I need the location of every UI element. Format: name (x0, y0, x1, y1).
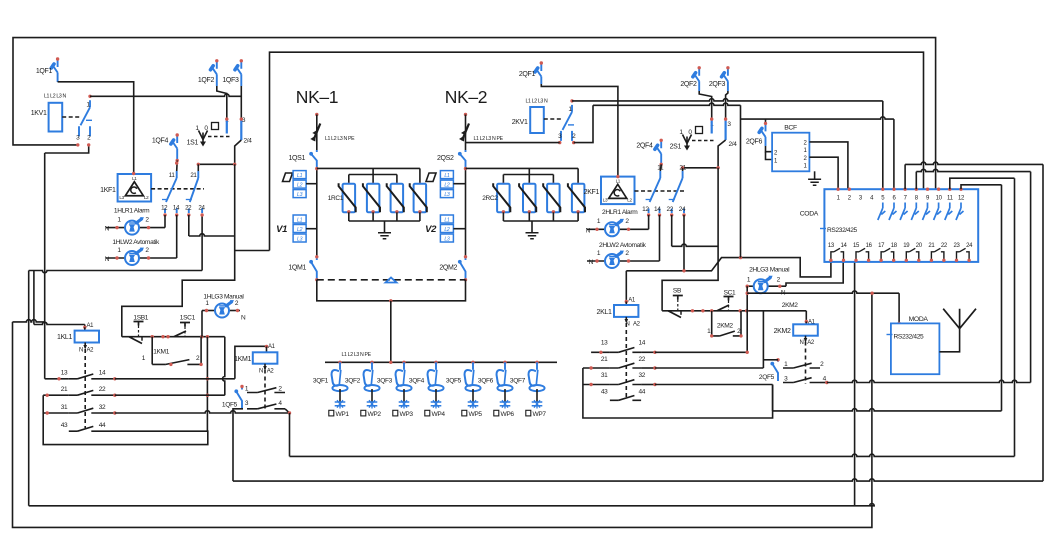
svg-text:21: 21 (190, 172, 197, 179)
dashed actuator link 1KF1 contacts (151, 188, 204, 190)
svg-text:A1: A1 (87, 323, 95, 329)
outgoing circuit WP7 (526, 389, 547, 418)
dashed actuator link 1KM1-1QF5 contacts (264, 370, 266, 411)
wire CODA pin 16 to MODA and lamp net (747, 291, 901, 325)
svg-text:WP5: WP5 (469, 411, 483, 418)
circuit breaker 2QF5 (759, 358, 780, 381)
svg-text:2RC2: 2RC2 (482, 195, 498, 202)
svg-text:SB: SB (673, 288, 682, 295)
varistor bank 2RC2 (466, 168, 586, 238)
svg-text:24: 24 (966, 243, 973, 249)
svg-text:WP4: WP4 (432, 411, 446, 418)
svg-text:44: 44 (99, 422, 106, 429)
svg-text:RS232/425: RS232/425 (827, 227, 858, 234)
svg-text:21: 21 (928, 243, 935, 249)
dashed actuator link 2KL1 contacts (625, 323, 627, 397)
contact 1-2 of 2QF5 (783, 361, 824, 368)
contact 13-14 of 2KL1 (591, 340, 657, 354)
load switch 2QM2 (439, 255, 467, 281)
wire 1KV1 pin1 bus to 1QF3 (90, 94, 241, 96)
wire row 14 NK-2 to 2HLG3 riser (655, 351, 749, 354)
circuit breaker 1QF2 (198, 59, 219, 86)
wire row 14 to A1 riser (115, 378, 235, 380)
wire 2QF3 to 2S1 terminal 3 (726, 91, 728, 119)
svg-text:1HLW2 Avtomatik: 1HLW2 Avtomatik (112, 239, 160, 246)
svg-text:L1: L1 (444, 173, 450, 179)
wire 2HLG3 pin2 to CODA pin 14 line (786, 261, 843, 287)
svg-text:13: 13 (828, 243, 835, 249)
svg-text:14: 14 (99, 370, 106, 377)
contact 31-32 of 2KL1 (583, 372, 657, 386)
CODA output contacts pins 13-24 (829, 248, 971, 262)
svg-text:A2: A2 (807, 340, 815, 346)
svg-text:A2: A2 (633, 322, 641, 328)
svg-text:N: N (800, 340, 804, 346)
svg-text:1QS1: 1QS1 (289, 155, 306, 162)
relay coil 1KL1 (57, 323, 99, 354)
svg-text:L3: L3 (297, 192, 303, 198)
svg-text:2QF2: 2QF2 (680, 81, 697, 88)
svg-text:L1 L2 L3 N PE: L1 L2 L3 N PE (342, 352, 372, 358)
phase monitor relay 2KF1 (584, 175, 635, 204)
signal lamp 2HLR1 Alarm (586, 209, 649, 236)
svg-text:43: 43 (61, 422, 68, 429)
aux changeover contact 11-12-14 of 2KF1 (642, 165, 664, 217)
svg-text:32: 32 (639, 372, 646, 379)
svg-text:2QF6: 2QF6 (746, 139, 763, 146)
svg-text:2QF5: 2QF5 (759, 374, 775, 381)
outgoing circuit WP5 (462, 389, 483, 418)
wire 2QF5 feed from manual row (763, 311, 778, 368)
changeover contact of 1KV1 (76, 95, 92, 147)
svg-text:1KM1: 1KM1 (153, 349, 170, 356)
svg-text:2KF1: 2KF1 (584, 189, 600, 196)
svg-text:WP6: WP6 (501, 411, 515, 418)
svg-text:L1 L2 L3 N PE: L1 L2 L3 N PE (325, 136, 355, 142)
svg-text:2HLR1 Alarm: 2HLR1 Alarm (602, 209, 638, 216)
wire long bottom bus 24-contact to CODA pin 15 (29, 215, 875, 506)
wire manual feed line down to 1SB1 row (122, 164, 235, 336)
relay 1KV1 (31, 94, 80, 132)
wire QM output rail to distribution bus (317, 280, 466, 363)
wire 2QF4 to contact 11 (659, 164, 662, 171)
circuit breaker 2QF2 (680, 66, 701, 91)
signal lamp 1HLW2 Avtomatik (105, 239, 177, 265)
wire 1QF5 pole input from bottom bus (233, 409, 243, 481)
svg-text:1KV1: 1KV1 (31, 110, 47, 117)
svg-text:3QF4: 3QF4 (409, 378, 425, 385)
svg-text:V1: V1 (276, 224, 287, 235)
svg-text:1QF4: 1QF4 (152, 138, 169, 145)
svg-text:1QM1: 1QM1 (288, 265, 306, 272)
relay coil 1KM1 (234, 344, 277, 375)
terminal block A1 group NK-1 (283, 171, 317, 198)
svg-text:23: 23 (954, 243, 961, 249)
RCBO breaker 3QF4 (409, 361, 444, 392)
contact 31-32 of 1KL1 (43, 404, 116, 415)
terminal block A2 group NK-2 (426, 171, 466, 198)
svg-text:1HLG3 Manual: 1HLG3 Manual (203, 294, 244, 301)
svg-text:3QF7: 3QF7 (510, 378, 526, 385)
svg-text:2KV1: 2KV1 (512, 119, 528, 126)
load switch 2QS2 (437, 150, 466, 167)
wire lamp 2HLR1 to contact 12 (648, 215, 650, 229)
surge arrester arrow NK-1 (310, 124, 355, 143)
svg-text:2KM2: 2KM2 (782, 302, 799, 309)
wire 2KV1 pin2 sense bus to BCF enclosure line (574, 103, 741, 143)
wire BCF outputs to CODA pins 1-2 (809, 142, 848, 189)
svg-text:V2: V2 (425, 224, 437, 235)
svg-text:22: 22 (99, 386, 106, 393)
svg-text:44: 44 (639, 388, 646, 395)
wire 1KL1 A1 feed branch (34, 271, 85, 328)
wire 1QF1 to 1KF1 (58, 82, 134, 174)
svg-text:WP7: WP7 (533, 411, 547, 418)
svg-text:13: 13 (601, 340, 608, 347)
svg-text:1SC1: 1SC1 (180, 315, 196, 322)
phase monitor relay 1KF1 (100, 172, 151, 202)
relay 2KV1 (512, 99, 561, 134)
module BCF (772, 125, 809, 172)
svg-text:2QS2: 2QS2 (437, 155, 454, 162)
wire 2QF1 to 2KF1 (541, 84, 618, 177)
svg-text:11: 11 (657, 165, 664, 172)
wire control row NK-1 manual circuit (122, 335, 225, 338)
selector switch 2S1 (670, 117, 738, 150)
circuit breaker 1QF3 (222, 59, 243, 86)
selector switch 1S1 (187, 117, 253, 147)
relay coil 2KL1 (597, 298, 641, 328)
svg-text:11: 11 (169, 172, 176, 179)
wire 2QF2 to 2S1 terminal 1 (699, 91, 712, 119)
svg-text:19: 19 (903, 243, 910, 249)
wire 1SB1 parallel branch (152, 337, 201, 365)
contact 13-14 of 1KL1 (45, 370, 117, 381)
wire 2QF5 output to CODA pin 8 (827, 172, 1031, 383)
wire control row NK-2 manual circuit (662, 309, 806, 312)
module CODA (800, 189, 978, 262)
RCBO breaker 3QF7 (510, 361, 545, 392)
aux contact 2KM2 self-hold (707, 322, 743, 337)
wire NK-2 spine (464, 167, 467, 257)
svg-text:14: 14 (841, 243, 848, 249)
contact 1-2 of 1QF5 (245, 386, 285, 393)
svg-text:L1 L2 L3 N: L1 L2 L3 N (526, 99, 548, 105)
wire 2KL1 coil A1 feed (626, 269, 685, 301)
dashed actuator link 2KF1 contacts (635, 190, 687, 192)
wire 1QF4 to contact 11 (175, 161, 178, 172)
RCBO breaker 3QF5 (446, 361, 481, 392)
svg-text:1HLR1 Alarm: 1HLR1 Alarm (114, 208, 150, 215)
CODA input switches pins 5-12 (836, 188, 963, 221)
svg-text:2KM2: 2KM2 (717, 322, 734, 329)
svg-text:18: 18 (891, 243, 898, 249)
signal lamp 1HLG3 Manual (202, 294, 246, 322)
RCBO breaker 3QF1 (313, 361, 348, 392)
contact 3-4 of 2QF5 (783, 375, 829, 384)
node NK-1 feed (315, 113, 318, 150)
svg-text:N: N (79, 348, 83, 354)
ground BCF (808, 171, 821, 185)
wire top border bus from 1KV1 pin3 to CODA pin 10 (13, 38, 936, 190)
relay coil 2KM2 (774, 320, 818, 347)
svg-text:2QF4: 2QF4 (636, 143, 653, 150)
svg-text:1QF2: 1QF2 (198, 77, 215, 84)
varistor bank 1RC1 (317, 168, 427, 238)
wire contact 24 NK-2 to CODA pin 13 line (684, 215, 831, 277)
svg-text:2KM2: 2KM2 (774, 328, 791, 335)
module MODA (887, 316, 940, 374)
wire 2KV1 pin1 sense bus to CODA pin 5 (572, 99, 883, 190)
svg-text:L2: L2 (297, 183, 303, 189)
svg-text:WP1: WP1 (336, 411, 350, 418)
svg-text:2QF3: 2QF3 (709, 81, 726, 88)
aux changeover contact 11-12-14 of 1KF1 (161, 171, 180, 217)
terminal block V1 group NK-1 (276, 215, 317, 242)
svg-text:21: 21 (679, 165, 686, 172)
changeover contact of 2KV1 (558, 99, 576, 144)
svg-text:SC1: SC1 (724, 290, 736, 297)
svg-text:24: 24 (198, 205, 205, 212)
wire 1SB1 row down through rows (206, 337, 209, 432)
surge arrester arrow NK-2 (459, 124, 504, 143)
RCBO breaker 3QF2 (345, 361, 380, 392)
svg-text:22: 22 (666, 206, 673, 213)
contact 43-44 of 1KL1 (61, 422, 106, 431)
svg-text:L2: L2 (444, 183, 450, 189)
wire contact 22 to manual line (189, 215, 235, 236)
wire SC parallel branch (712, 311, 741, 336)
wire 1KL1 contact left bus (43, 395, 208, 444)
svg-text:2QF1: 2QF1 (519, 71, 536, 78)
outgoing circuit WP3 (393, 389, 414, 418)
title NK-1 (296, 87, 338, 107)
outgoing circuit WP4 (425, 389, 446, 418)
wire bottom bus row to CODA pin 7 (233, 164, 1043, 481)
svg-text:15: 15 (853, 243, 860, 249)
svg-text:14: 14 (639, 340, 646, 347)
circuit breaker 1QF1 (36, 57, 59, 82)
wire NK-1 spine (315, 167, 318, 257)
svg-text:NK–1: NK–1 (296, 87, 338, 107)
RCBO breaker 3QF6 (478, 361, 513, 392)
svg-text:22: 22 (941, 243, 948, 249)
wire 1KV1 pin2 down-left bus (45, 145, 89, 379)
svg-text:1QF5: 1QF5 (222, 402, 238, 409)
svg-text:14: 14 (654, 206, 661, 213)
wire contact 22 NK-2 to manual line (672, 215, 718, 246)
title NK-2 (445, 87, 487, 107)
node NK-2 feed (464, 113, 467, 150)
svg-text:22: 22 (639, 356, 646, 363)
svg-text:N: N (105, 256, 110, 263)
wire 1SB1 row to 22-row (222, 337, 224, 396)
wire 2KM2 coil A1 feed (782, 302, 808, 323)
svg-text:3QF6: 3QF6 (478, 378, 494, 385)
svg-text:N: N (589, 259, 594, 266)
wire CODA pin 11 to right loop (950, 178, 1015, 189)
wire 1QF3 to 1S1 terminal 3 (240, 86, 242, 119)
wire 2HLG3 pin1 down through row (746, 286, 749, 352)
svg-text:13: 13 (61, 370, 68, 377)
wire row 22 NK-2 right (655, 367, 764, 369)
svg-text:32: 32 (99, 404, 106, 411)
dashed actuator link 2KM2-2QF5 contacts (805, 342, 807, 385)
wire row 32 NK-2 to CODA pin 12 (655, 185, 1002, 411)
wire bottom-left outer loop to CODA pin 16 (13, 293, 872, 527)
outgoing circuit WP1 (329, 389, 350, 418)
pushbutton 1SB1 (129, 315, 149, 344)
wire lamp 1HLR1 to contact 12 (164, 215, 166, 228)
RCBO breaker 3QF3 (377, 361, 412, 392)
svg-text:NK–2: NK–2 (445, 87, 487, 107)
svg-text:1KF1: 1KF1 (100, 187, 116, 194)
svg-text:22: 22 (185, 205, 192, 212)
contact 43-44 of 2KL1 (601, 388, 646, 400)
svg-text:N: N (241, 315, 246, 322)
signal lamp 1HLR1 Alarm (105, 208, 165, 235)
svg-text:1S1: 1S1 (187, 140, 199, 147)
mechanical interlock dashed link 1QM1-2QM2 (317, 278, 466, 283)
svg-text:1KM1: 1KM1 (234, 356, 251, 363)
svg-text:BCF: BCF (784, 125, 797, 132)
wire CODA pin 8 to right loop (916, 169, 1030, 189)
svg-text:31: 31 (601, 372, 608, 379)
antenna (939, 309, 976, 352)
wire 2KV1 pin3 to NK-2 spine (466, 142, 560, 144)
wire second top bus from NK box to CODA pin 9 (235, 52, 923, 250)
load switch 1QM1 (288, 255, 318, 281)
svg-text:24: 24 (679, 206, 686, 213)
svg-text:L1: L1 (297, 217, 303, 223)
pushbutton SB (668, 288, 683, 318)
wire BCF enclosure feed line to CODA pin 6 (741, 105, 894, 257)
svg-text:21: 21 (61, 386, 68, 393)
svg-text:1QF1: 1QF1 (36, 68, 53, 75)
wire CODA pin 12 to right loop (961, 185, 1002, 189)
svg-text:MODA: MODA (909, 316, 929, 323)
svg-text:3QF2: 3QF2 (345, 378, 361, 385)
wire 1QF2 to 1S1 terminal 1 (217, 86, 227, 119)
outgoing circuit WP2 (361, 389, 382, 418)
distribution bus L1 L2 L3 N PE (325, 352, 557, 364)
wire 1KM1 coil A1 feed (235, 345, 268, 379)
svg-text:1KL1: 1KL1 (57, 334, 72, 341)
svg-text:1QF3: 1QF3 (222, 77, 239, 84)
contact 21-22 of 1KL1 (43, 386, 116, 397)
circuit breaker 1QF5 (222, 385, 244, 409)
wire row 22 to SB-row riser (115, 394, 225, 396)
wire lamp 2HLW2 to contact 14 (659, 215, 661, 261)
svg-text:RS232/425: RS232/425 (894, 334, 925, 341)
circuit breaker 2QF1 (519, 61, 543, 84)
wire 1QF5 output to bottom bus (290, 178, 1015, 456)
svg-text:31: 31 (61, 404, 68, 411)
wire 1S1 output manual line (197, 140, 242, 171)
svg-text:3QF1: 3QF1 (313, 378, 329, 385)
svg-text:A1: A1 (628, 298, 636, 304)
switch SC1 (717, 290, 736, 312)
svg-text:21: 21 (601, 356, 608, 363)
aux contact 1KM1 self-hold (142, 349, 203, 367)
aux changeover contact 21-22-24 of 1KF1 (185, 171, 205, 217)
svg-text:L3: L3 (297, 236, 303, 242)
svg-text:12: 12 (642, 206, 649, 213)
svg-text:L1 L2 L3 N: L1 L2 L3 N (44, 94, 66, 100)
svg-text:N: N (586, 227, 591, 234)
svg-text:A2: A2 (87, 348, 95, 354)
signal lamp 2HLW2 Avtomatik (587, 242, 660, 268)
svg-text:14: 14 (173, 205, 180, 212)
svg-text:2/4: 2/4 (729, 141, 738, 148)
svg-text:16: 16 (866, 243, 873, 249)
wire 2QF6 fork to BCF inputs (766, 146, 773, 160)
wire 2S1 output manual line (681, 140, 726, 171)
svg-text:L1: L1 (132, 176, 137, 181)
svg-text:2KL1: 2KL1 (597, 309, 612, 316)
wire row 32 to 1QF5 output node (115, 411, 290, 413)
terminal block V2 group NK-2 (425, 215, 465, 242)
svg-text:L3: L3 (603, 198, 608, 203)
wire 2KL1 contact left bus (583, 368, 773, 418)
circuit breaker 1QF4 (152, 133, 179, 162)
dashed actuator link 1KL1 contacts (84, 349, 86, 428)
svg-text:2HLW2 Avtomatik: 2HLW2 Avtomatik (599, 242, 647, 249)
svg-text:L3: L3 (444, 192, 450, 198)
svg-text:N: N (259, 369, 263, 375)
svg-text:43: 43 (601, 388, 608, 395)
svg-text:10: 10 (936, 196, 943, 202)
svg-text:12: 12 (958, 196, 965, 202)
wire manual feed line NK-2 down to SB row (662, 168, 718, 311)
svg-text:1RC1: 1RC1 (328, 195, 344, 202)
outgoing circuit WP6 (494, 389, 515, 418)
svg-text:A2: A2 (267, 369, 275, 375)
svg-text:L3: L3 (444, 236, 450, 242)
wire 1HLG3 to row (201, 311, 203, 337)
svg-text:20: 20 (916, 243, 923, 249)
svg-text:L1: L1 (616, 179, 621, 184)
svg-text:L2: L2 (297, 227, 303, 233)
svg-text:A1: A1 (268, 344, 276, 350)
circuit breaker 2QF3 (709, 66, 730, 91)
svg-text:3QF5: 3QF5 (446, 378, 462, 385)
switch 1SC1 (174, 315, 196, 338)
svg-text:2S1: 2S1 (670, 144, 682, 151)
svg-text:3QF3: 3QF3 (377, 378, 393, 385)
svg-text:N: N (105, 226, 110, 233)
aux changeover contact 21-22-24 of 2KF1 (666, 165, 686, 217)
svg-text:1SB1: 1SB1 (133, 315, 148, 322)
contact 3-4 of 1QF5 (245, 400, 291, 415)
svg-text:L2: L2 (444, 227, 450, 233)
svg-text:L1 L2 L3 N PE: L1 L2 L3 N PE (474, 136, 504, 142)
circuit breaker 2QF4 (636, 139, 663, 166)
svg-text:WP2: WP2 (368, 411, 382, 418)
svg-text:17: 17 (878, 243, 885, 249)
svg-text:2/4: 2/4 (244, 138, 253, 145)
svg-text:12: 12 (161, 205, 168, 212)
svg-text:WP3: WP3 (400, 411, 414, 418)
svg-text:2QM2: 2QM2 (439, 265, 457, 272)
wire lamp 1HLW2 to contact 14 (176, 215, 178, 258)
contact 21-22 of 2KL1 (583, 356, 657, 370)
wire CODA pin 7 to right loop (905, 162, 1043, 189)
signal lamp 2HLG3 Manual (746, 267, 791, 297)
svg-text:2HLG3 Manual: 2HLG3 Manual (749, 267, 790, 274)
circuit breaker 2QF6 (746, 119, 767, 146)
svg-text:L1: L1 (444, 217, 450, 223)
